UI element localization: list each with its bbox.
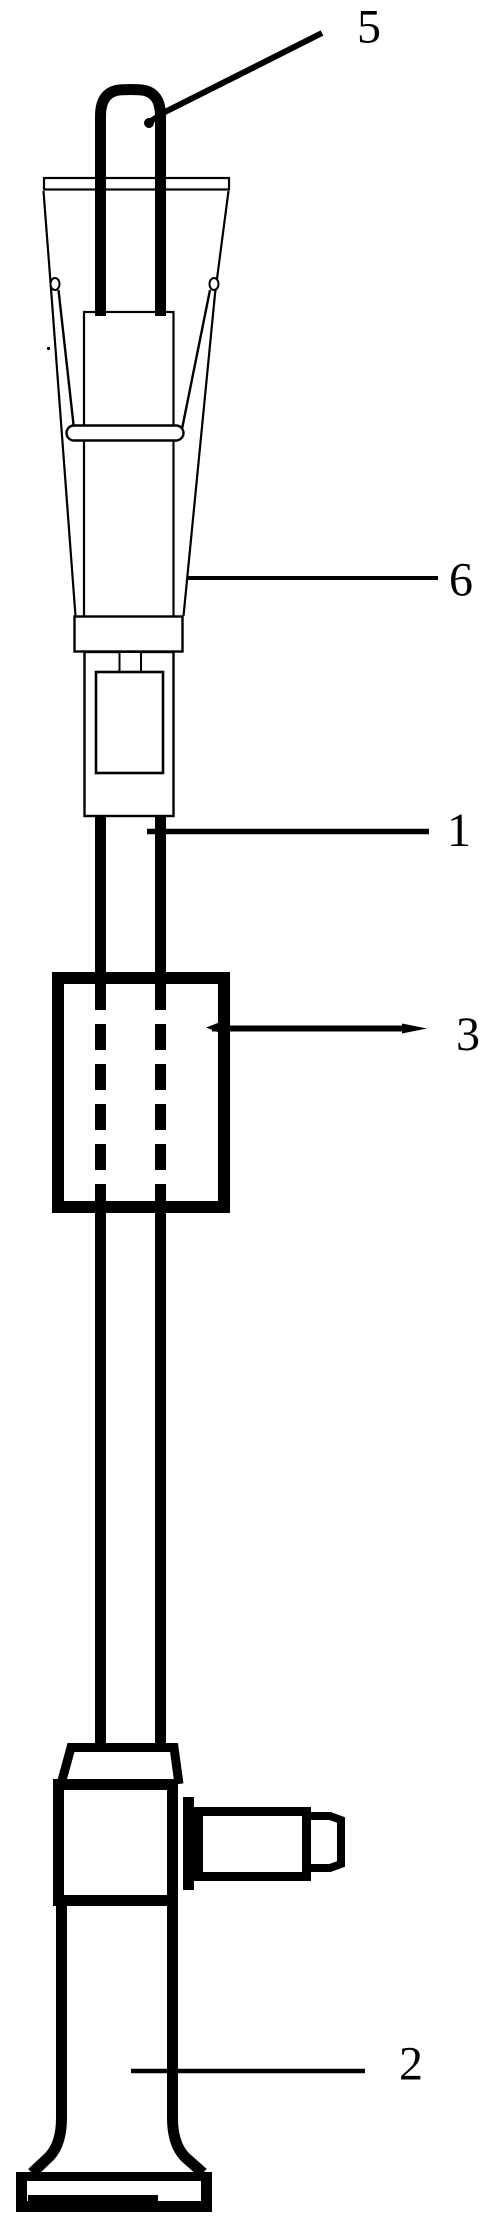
svg-text:3: 3 (456, 1008, 480, 1061)
svg-text:2: 2 (399, 2038, 423, 2091)
barrel flange (pill) (67, 426, 184, 441)
valve body (59, 1785, 173, 1901)
leader line to 1 (147, 829, 429, 835)
base plate (16, 2172, 212, 2212)
svg-text:5: 5 (357, 1, 381, 54)
funnel outer wall left (part 6) (44, 191, 76, 616)
hook eyelet left (51, 278, 60, 290)
leader line to 2 (131, 2069, 365, 2074)
inspection window (96, 672, 163, 773)
pump body (85, 652, 174, 816)
funnel top rim (part 6) (44, 178, 229, 190)
stray speck (47, 347, 50, 350)
valve collar (61, 1748, 179, 1785)
funnel base block (75, 617, 183, 652)
tube 1 lower segment (95, 1207, 106, 1748)
handle barrel right wall with flare (173, 1901, 204, 2173)
side port barrel (199, 1812, 307, 1877)
syringe barrel inside funnel (84, 312, 174, 617)
dashed tube inside box left (95, 984, 106, 1205)
leader line to 5 (151, 33, 322, 121)
leader line to 3 with arrow (212, 1026, 412, 1032)
funnel outer wall right (part 6) (184, 191, 229, 616)
catheter tube 5 (dome top section) (101, 90, 161, 316)
inner strap left (59, 290, 75, 429)
hook eyelet right (210, 278, 219, 290)
neck connector (120, 652, 142, 672)
side port tip (311, 1816, 341, 1868)
handle barrel left wall with flare (32, 1901, 62, 2173)
svg-text:1: 1 (447, 804, 471, 857)
tube 1 upper segment (95, 816, 106, 980)
dashed tube inside box right (155, 984, 166, 1205)
leader line to 6 (187, 576, 438, 580)
svg-text:6: 6 (449, 554, 473, 607)
inner strap right (182, 290, 210, 429)
fixation box 3 (58, 978, 224, 1207)
side port flange (183, 1797, 194, 1890)
